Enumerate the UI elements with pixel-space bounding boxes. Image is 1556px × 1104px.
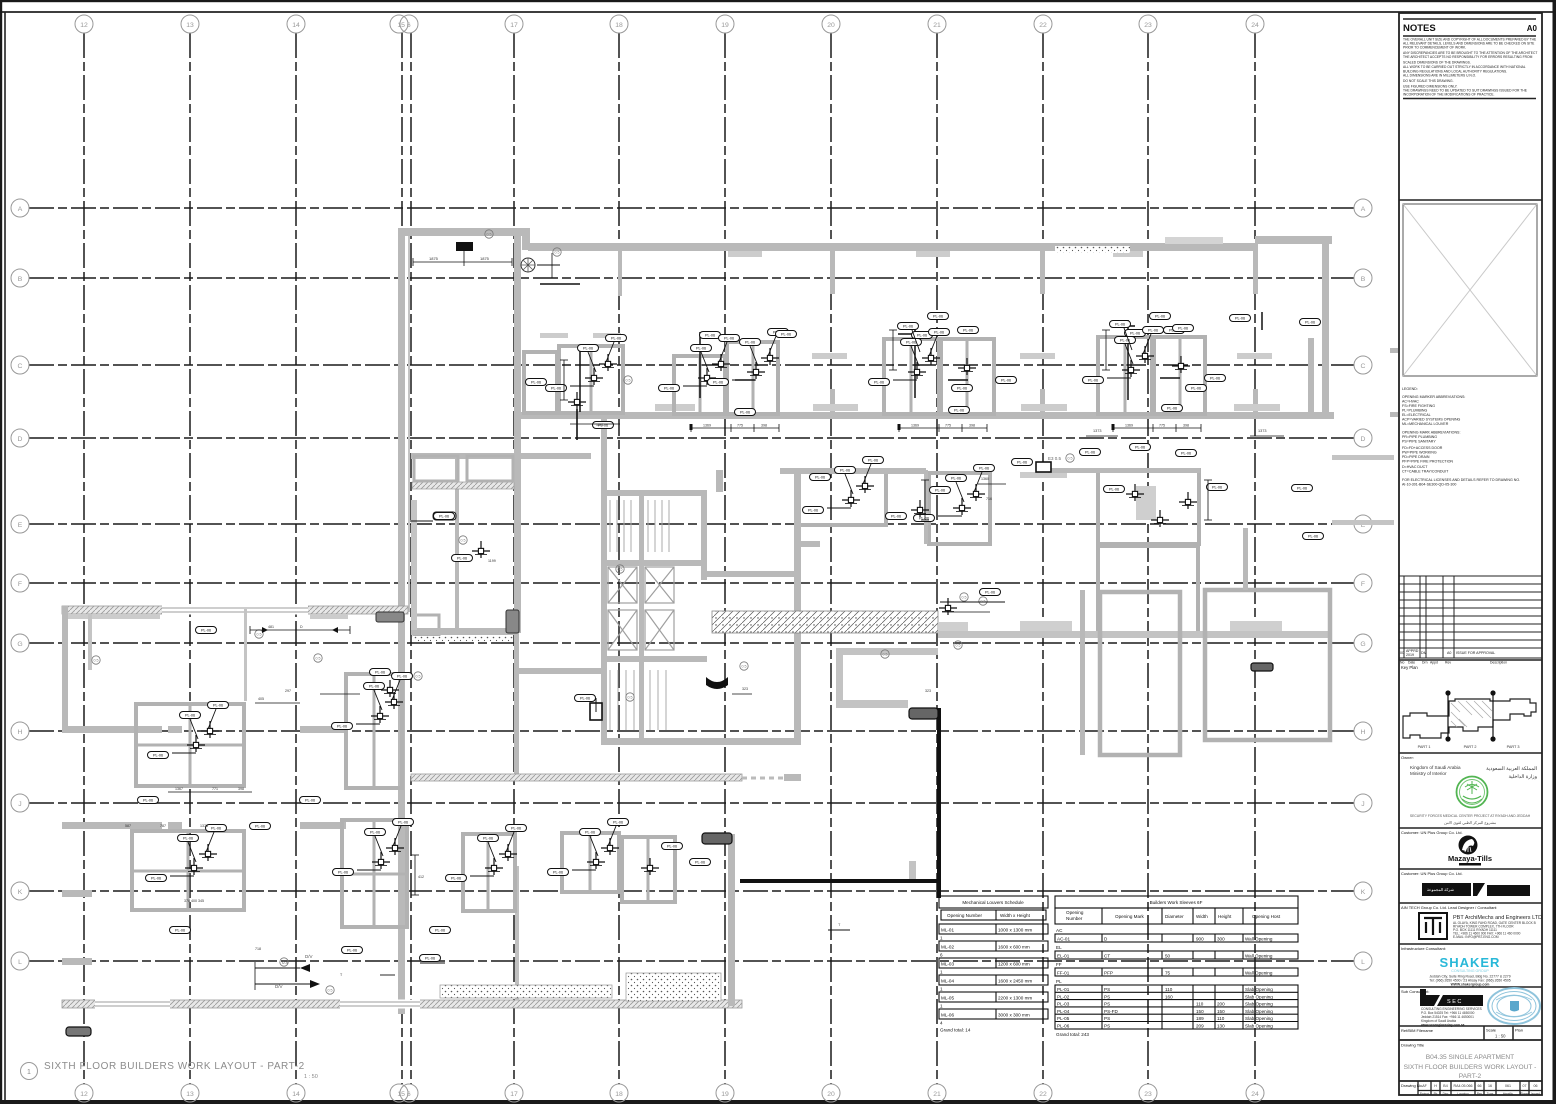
svg-text:00: 00 [1400,651,1404,655]
wall y468 row2 [780,468,926,474]
svg-text:Customer: UN Plus Group Co. Lt: Customer: UN Plus Group Co. Ltd. [1401,830,1463,835]
svg-text:SIXTH FLOOR BUILDERS WORK LAYO: SIXTH FLOOR BUILDERS WORK LAYOUT - [1404,1064,1537,1071]
dim 1875 x2 [413,251,512,266]
svg-text:AI-10-301-B04-SE300-QD-05-300: AI-10-301-B04-SE300-QD-05-300 [1402,483,1456,487]
section cut lines [1447,694,1449,738]
svg-text:Key Plan: Key Plan [1401,665,1418,670]
row2 rooms [799,470,1199,635]
svg-text:Project: Project [1420,1092,1430,1096]
annotations top right cluster area [889,313,1171,371]
svg-text:66: 66 [1478,1084,1482,1088]
svg-text:Customer: UN Plus Group Co. Lt: Customer: UN Plus Group Co. Ltd. [1401,871,1463,876]
svg-text:PR=PIPE PLUMBING: PR=PIPE PLUMBING [1402,435,1437,439]
svg-text:PD=PIPE DRAIN: PD=PIPE DRAIN [1402,455,1430,459]
svg-text:Ph: Ph [1434,1092,1438,1096]
dark pill opening near J/19 [702,833,732,844]
room group C [884,339,939,414]
svg-text:061: 061 [1505,1084,1511,1088]
black outlined box near row2 [1036,462,1051,472]
svg-text:Disc: Disc [1443,1092,1449,1096]
svg-text:A0: A0 [1527,24,1538,33]
window gaps in wing walls [95,606,420,1009]
svg-text:FD=FD+ACCESS DOOR: FD=FD+ACCESS DOOR [1402,446,1443,450]
svg-text:PW=PIPE WORKING: PW=PIPE WORKING [1402,451,1437,455]
left bubbles [11,199,29,217]
black basin fixture symbol [706,677,728,689]
corridor wall below core [411,774,742,781]
mid-left rooms [411,453,591,459]
wall left long vertical [398,228,405,1014]
svg-text:CT=CABLE TRAY/CONDUIT: CT=CABLE TRAY/CONDUIT [1402,470,1449,474]
cluster annotations row2 [803,429,1324,540]
wing bathroom clusters [132,674,675,927]
svg-text:Description: Description [1490,661,1507,665]
annotations lower wing [92,656,711,994]
svg-text:PRIOR TO COMMENCEMENT OF WORK.: PRIOR TO COMMENCEMENT OF WORK. [1403,46,1466,50]
svg-text:No: No [1400,661,1404,665]
sub consultant [1399,986,1542,988]
svg-text:S E C: S E C [1447,999,1461,1005]
svg-text:FOR ELECTRICAL LICENSES AND DE: FOR ELECTRICAL LICENSES AND DETAILS REFE… [1402,478,1520,482]
svg-text:PART-2: PART-2 [1459,1073,1482,1080]
svg-text:Rev: Rev [1445,661,1451,665]
svg-text:المملكة العربية السعودية: المملكة العربية السعودية [1486,766,1537,772]
svg-text:ALL DIMENSIONS ARE IN MILLIMET: ALL DIMENSIONS ARE IN MILLIMETERS U.N.O. [1403,74,1476,78]
right bubbles [1354,199,1372,217]
svg-text:شركة المجموعة: شركة المجموعة [1427,887,1455,892]
svg-text:DM: DM [1421,651,1427,655]
lower-left wing [62,606,408,614]
central core [601,419,607,495]
drawing title [1399,1039,1542,1041]
dotted strips bottom [440,985,612,998]
svg-text:PART 3: PART 3 [1507,745,1520,749]
svg-text:INCORPORATION OF THE MODIFICAT: INCORPORATION OF THE MODIFICATIONS OF PR… [1403,93,1494,97]
G-line long wall [938,631,1330,638]
notes top rule [1403,18,1536,20]
svg-text:Owner:: Owner: [1401,755,1414,760]
louver ML-03 black rect top wall [456,242,473,251]
inner partitions in clusters [132,337,1180,927]
right edge wall upper block [1322,244,1329,419]
legend section [1402,387,1520,487]
horizontal grid lines A..L [29,207,1354,209]
svg-text:PFP=PIPE FIRE PROTECTION: PFP=PIPE FIRE PROTECTION [1402,460,1453,464]
rooms below G right side [1100,590,1330,755]
annotations near G line and core [575,376,1006,712]
svg-text:Drawing No.: Drawing No. [1401,1083,1423,1088]
svg-text:PART 1: PART 1 [1418,745,1431,749]
svg-text:Drawing Title: Drawing Title [1401,1043,1425,1048]
partition stubs from top wall [618,251,622,296]
svg-text:Ref/BIM Filename: Ref/BIM Filename [1401,1028,1434,1033]
svg-text:PS=PIPE SANITARY: PS=PIPE SANITARY [1402,440,1436,444]
svg-text:THE ARCHITECT ACCEPTS NO RESPO: THE ARCHITECT ACCEPTS NO RESPONSIBILITY … [1403,55,1533,59]
revision table [1399,576,1542,658]
cluster annotations upper row [526,312,1321,440]
designer section [1399,902,1542,904]
room group B [674,356,725,414]
wall top step [522,228,530,250]
drawing no row [1399,1080,1542,1082]
elevator shafts with X [608,567,674,650]
svg-text:1 : 50: 1 : 50 [1495,1034,1506,1039]
svg-text:PL=PLUMBING: PL=PLUMBING [1402,409,1427,413]
svg-text:DO NOT SCALE THIS DRAWING.: DO NOT SCALE THIS DRAWING. [1403,79,1454,83]
dark pill opening near G/24 [1251,663,1273,671]
svg-text:Drn: Drn [1422,661,1428,665]
svg-text:06: 06 [1534,1084,1538,1088]
infrastructure consultant [1399,943,1542,945]
svg-text:E-MAIL: INFO@PBT-ENG.COM: E-MAIL: INFO@PBT-ENG.COM [1453,935,1499,939]
room group D [1098,337,1152,414]
builders work sleeves table [1055,896,1298,1037]
svg-text:H: H [1434,1084,1437,1088]
stair treads [610,500,669,730]
green MOI emblem [1457,777,1488,808]
svg-text:Rev: Rev [1477,1092,1483,1096]
bottom bubbles [75,1084,93,1102]
svg-text:Date: Date [1408,661,1415,665]
svg-text:NOTES: NOTES [1403,23,1436,34]
svg-text:Plan: Plan [1515,1028,1523,1033]
key plan placeholder X box [1403,204,1537,376]
svg-text:SHAKER: SHAKER [1440,955,1501,970]
svg-text:Infrastructure Consultant:: Infrastructure Consultant: [1401,946,1446,951]
svg-text:ISSUE FOR APPROVAL: ISSUE FOR APPROVAL [1456,651,1495,655]
wall top right raised [1255,236,1332,244]
bottom-left drawing title [21,1061,318,1080]
dark pill opening bottom-left [66,1027,91,1036]
svg-text:OPENING MARK ABBREVIATIONS:: OPENING MARK ABBREVIATIONS: [1402,431,1460,435]
svg-text:Scale: Scale [1486,1028,1497,1033]
outlined fixture box near core [590,703,602,720]
svg-text:Issued: Issued [1531,1092,1540,1096]
svg-text:Type: Type [1487,1092,1494,1096]
customer 1 section [1399,827,1542,829]
vertical grid lines 12..24 [83,33,85,1084]
black L-shape [937,708,941,898]
bathroom cluster boxes upper row [524,337,1205,414]
svg-text:Identific: Identific [1503,1092,1514,1096]
fan symbol top [521,258,535,272]
alcove room below G right [836,648,843,708]
svg-text:RA4.05.066: RA4.05.066 [1454,1084,1473,1088]
svg-text:CONSULTING GROUP: CONSULTING GROUP [1451,969,1489,973]
FF row [1055,968,1298,976]
sidebar panel frame [1399,13,1542,1095]
svg-text:مشروع المركز الطبي لقوى الامن: مشروع المركز الطبي لقوى الامن [1444,820,1496,825]
svg-text:AIN TECH Group Co. Ltd. Lead D: AIN TECH Group Co. Ltd. Lead Designer / … [1401,905,1497,910]
svg-text:Kingdom of Saudi Arabia: Kingdom of Saudi Arabia [1410,765,1461,770]
wall top-left upper [398,228,530,236]
svg-text:Appd: Appd [1430,661,1438,665]
top bubbles [75,15,93,33]
blue stamp [1488,988,1540,1024]
wall x514 upper [514,236,521,416]
svg-text:Location: Location [1457,1092,1469,1096]
svg-text:16: 16 [1488,1084,1492,1088]
svg-text:D=HVAC DUCT: D=HVAC DUCT [1402,465,1428,469]
PL rows [1055,985,1298,1029]
svg-text:FS=FIRE FIGHTING: FS=FIRE FIGHTING [1402,404,1435,408]
dark pill opening at wing top wall [376,612,404,622]
dark pill opening near G/21 [909,708,938,719]
svg-text:B04.35 SINGLE APARTMENT: B04.35 SINGLE APARTMENT [1426,1054,1514,1061]
svg-text:PART 2: PART 2 [1464,745,1477,749]
svg-text:LEGEND:: LEGEND: [1402,387,1418,391]
hatched corridor strip [712,611,938,633]
key plan [1401,665,1536,749]
customer 2 section [1399,868,1542,870]
svg-text:Ministry of Interior: Ministry of Interior [1410,771,1447,776]
annotations right lower area [828,922,850,930]
owner section [1399,752,1542,754]
corridor wall upper [514,412,1334,419]
svg-text:OPENING MARKER ABBREVIATIONS:: OPENING MARKER ABBREVIATIONS: [1402,395,1465,399]
dark vertical opening at 17/G [506,610,519,633]
EL row [1055,951,1298,959]
annotations mid-left (E/F region) [196,512,496,697]
svg-text:وزارة الداخلية: وزارة الداخلية [1508,774,1537,780]
svg-text:AF: AF [1422,1084,1427,1088]
svg-text:A0: A0 [1447,651,1451,655]
svg-text:WWW.shakergroup.com: WWW.shakergroup.com [1451,983,1490,987]
mechanical louvers schedule table [939,896,1048,1033]
svg-text:Mazaya-Tills: Mazaya-Tills [1448,854,1492,863]
svg-text:B4: B4 [1443,1084,1447,1088]
svg-text:07: 07 [1523,1084,1527,1088]
window sill tabs top [728,251,762,257]
mid window tabs row (y=355) [812,353,847,359]
ref/bim row [1399,1025,1542,1027]
svg-text:Phase: Phase [1520,1092,1529,1096]
svg-text:AC=HVAC: AC=HVAC [1402,400,1419,404]
svg-text:SCALED DIMENSIONS OF THE DRAWI: SCALED DIMENSIONS OF THE DRAWINGS. [1403,61,1471,65]
notes body text [1403,38,1537,97]
svg-text:EL=ELECTRICAL: EL=ELECTRICAL [1402,413,1431,417]
svg-text:ALL WORK TO BE CARRIED OUT STR: ALL WORK TO BE CARRIED OUT STRICTLY IN A… [1403,65,1526,69]
svg-text:ACP=VARIED SYSTEMS OPENING: ACP=VARIED SYSTEMS OPENING [1402,418,1461,422]
wall top main [528,243,1258,251]
svg-text:SECURITY FORCES MEDICAL CENTER: SECURITY FORCES MEDICAL CENTER PROJECT A… [1410,814,1531,818]
svg-text:2019: 2019 [1406,653,1414,657]
notes section bottom boundary [1399,199,1542,201]
svg-text:ML=MECHANICAL LOUVER: ML=MECHANICAL LOUVER [1402,422,1449,426]
room group A [524,352,557,413]
AC row [1055,934,1298,942]
